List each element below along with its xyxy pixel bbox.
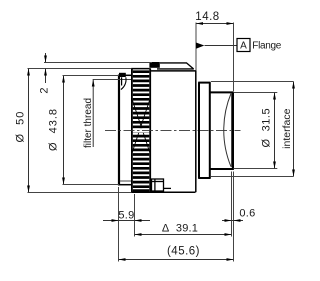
- svg-text:interface: interface: [281, 108, 293, 148]
- svg-text:Δ 39.1: Δ 39.1: [162, 223, 198, 235]
- focus tab knob: [149, 62, 159, 68]
- knurl diagonal marks: [132, 99, 150, 153]
- wire thread root bottom: [120, 180, 132, 182]
- dim 14.8: [195, 11, 233, 91]
- rear glass edge: [231, 93, 233, 167]
- svg-text:(45.6): (45.6): [167, 246, 200, 258]
- main body bottom edge: [131, 191, 195, 193]
- centerline window across ring: [133, 128, 149, 132]
- wire thread root top: [120, 79, 132, 81]
- svg-text:14.8: 14.8: [195, 11, 219, 23]
- dim dia 43.8: [47, 76, 119, 185]
- datum A flange: [196, 39, 282, 52]
- wire barrel bottom edge: [118, 184, 132, 186]
- rear lens surface: [224, 94, 231, 167]
- svg-text:Flange: Flange: [252, 40, 282, 51]
- wire front face: [118, 75, 120, 186]
- svg-text:A: A: [240, 41, 247, 52]
- label filter thread: [83, 80, 120, 149]
- svg-text:0.6: 0.6: [239, 208, 255, 220]
- dim 5.9: [103, 187, 150, 262]
- dim 2 extension line tab top: [44, 62, 152, 64]
- main body top edge: [150, 70, 196, 72]
- dim 39.1: [135, 223, 232, 236]
- mount interface cylinder: [210, 92, 233, 170]
- dim 2 extension line ring top (also dia50 top ext): [28, 68, 132, 70]
- knurl stripes: [133, 72, 150, 191]
- svg-text:5.9: 5.9: [118, 209, 134, 221]
- dim 2: [39, 53, 51, 94]
- clamp screw block: [152, 179, 172, 191]
- centerline: [105, 129, 241, 131]
- main body rear edge: [195, 70, 197, 192]
- dim interface: [211, 82, 295, 177]
- flange: [198, 82, 210, 178]
- svg-text:2: 2: [39, 87, 51, 93]
- dim 0.6: [222, 172, 256, 262]
- focus tab strip: [157, 63, 194, 69]
- dim dia 50: [14, 69, 131, 193]
- knurled focus ring outline: [131, 68, 150, 192]
- wire barrel top edge: [118, 74, 132, 76]
- svg-text:Ø 31.5: Ø 31.5: [260, 108, 272, 148]
- thread relief detail D: [119, 73, 126, 90]
- dim dia 31.5: [234, 93, 278, 169]
- dim (45.6): [119, 246, 234, 261]
- svg-text:Ø 43.8: Ø 43.8: [47, 108, 59, 151]
- svg-text:filter thread: filter thread: [83, 98, 94, 148]
- svg-text:Ø 50: Ø 50: [14, 111, 26, 143]
